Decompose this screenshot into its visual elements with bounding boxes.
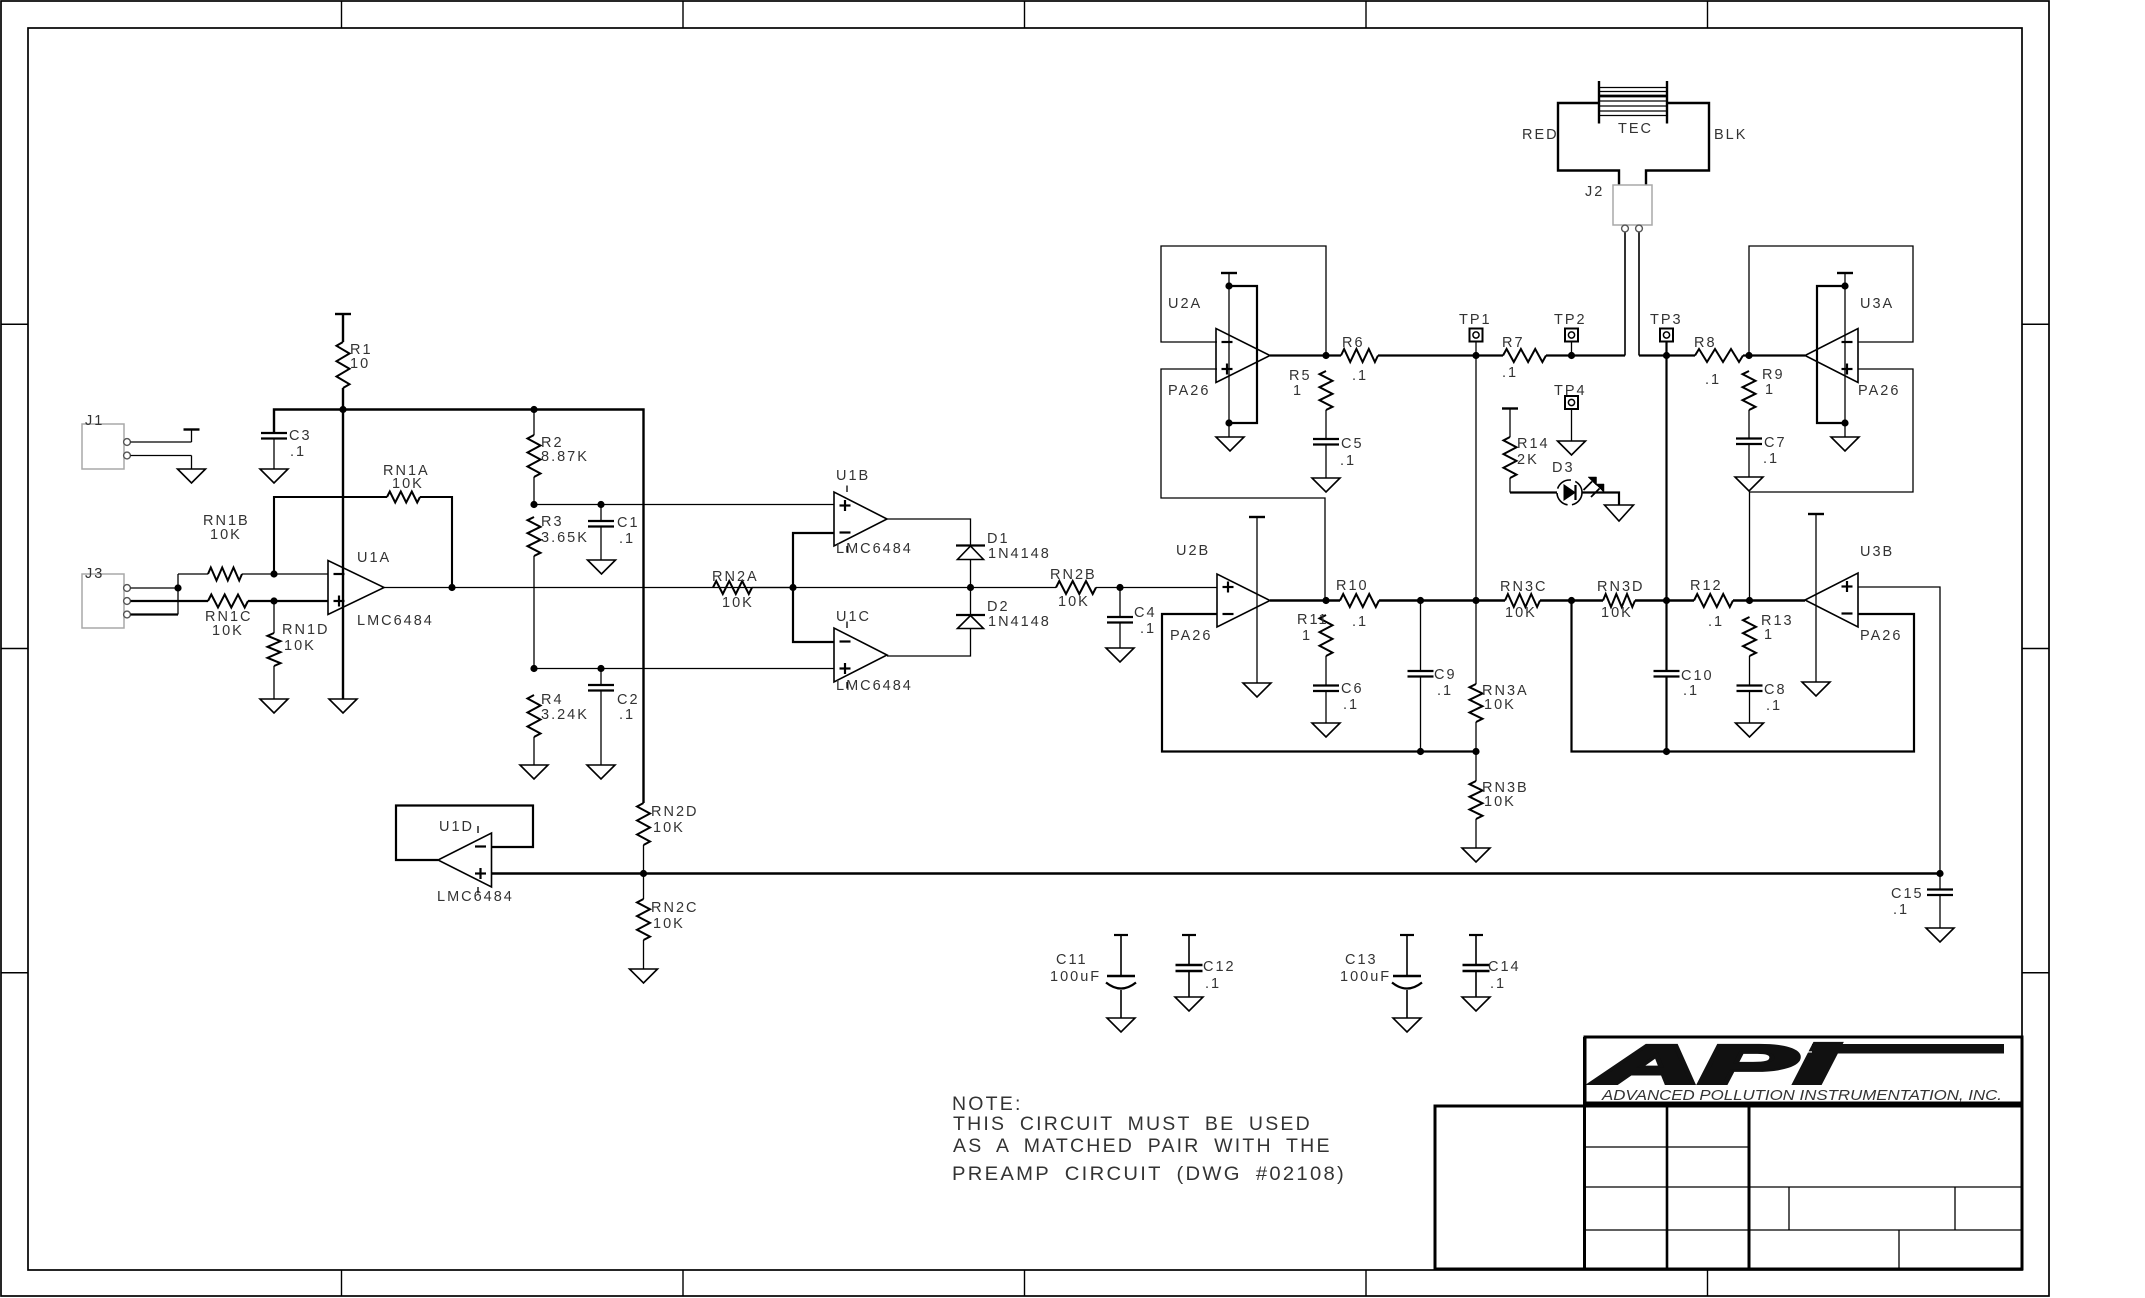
svg-text:.1: .1 <box>1340 453 1356 469</box>
svg-text:.1: .1 <box>1502 365 1518 381</box>
svg-text:ADVANCED POLLUTION INSTRUMENTA: ADVANCED POLLUTION INSTRUMENTATION, INC. <box>1601 1087 2002 1104</box>
svg-text:U1C: U1C <box>836 609 871 625</box>
svg-text:.1: .1 <box>1763 451 1779 467</box>
svg-text:R4: R4 <box>541 692 564 708</box>
wire U2A boost strap <box>1229 286 1257 423</box>
title block logo box <box>1585 1037 2022 1103</box>
wire J3 pin1 <box>131 587 179 589</box>
node R5 junction <box>1322 352 1329 359</box>
ground RN1D <box>260 699 288 713</box>
ground C4 <box>1106 648 1134 662</box>
svg-text:C11: C11 <box>1056 952 1088 968</box>
diode D1 1N4148 <box>956 531 1051 562</box>
svg-text:U3B: U3B <box>1860 544 1894 560</box>
note text <box>952 1093 1346 1185</box>
svg-text:D3: D3 <box>1552 460 1575 476</box>
wire J1 pin2 to ground <box>131 456 192 470</box>
capacitor C2 <box>588 669 640 766</box>
resistor RN3C <box>1500 579 1572 621</box>
svg-text:NOTE:: NOTE: <box>952 1093 1023 1115</box>
svg-text:100uF: 100uF <box>1340 969 1391 985</box>
svg-text:.1: .1 <box>1766 698 1782 714</box>
node RN3A top junction <box>1472 597 1479 604</box>
wire U3B plus to C15 node <box>1858 587 1940 874</box>
wire J3 pin2 to RN1C <box>131 600 209 602</box>
wire U2A output <box>1270 354 1341 356</box>
svg-text:C4: C4 <box>1134 605 1157 621</box>
node D1-D2 junction <box>967 584 974 591</box>
svg-text:R3: R3 <box>541 514 564 530</box>
node C9 top junction <box>1417 597 1424 604</box>
node C10 bottom junction <box>1663 748 1670 755</box>
ground U2B supply <box>1243 683 1271 697</box>
wire J2 pin2 lead <box>1638 232 1640 356</box>
wire to U1C minus <box>793 588 834 643</box>
svg-text:C1: C1 <box>617 515 640 531</box>
op-amp U2A PA26 <box>1168 296 1270 399</box>
terminal bar U3B supply <box>1808 513 1824 515</box>
test point TP3 <box>1650 312 1683 342</box>
svg-text:R10: R10 <box>1336 578 1369 594</box>
ground U3A supply <box>1831 437 1859 451</box>
node J3 pin1 junction <box>174 584 181 591</box>
svg-text:C15: C15 <box>1891 886 1924 902</box>
capacitor C6 <box>1313 681 1364 723</box>
svg-text:.1: .1 <box>619 531 635 547</box>
resistor RN1B <box>178 513 328 581</box>
svg-text:C13: C13 <box>1345 952 1378 968</box>
resistor R9 <box>1743 367 1785 439</box>
wire TP1 to RN3 node <box>1475 356 1477 601</box>
title block company name <box>1601 1087 2002 1104</box>
wire TP3 stem <box>1665 342 1667 601</box>
node R2-R3 junction <box>530 501 537 508</box>
wire U1B plus net <box>534 504 834 506</box>
wire TEC loop left RED <box>1522 103 1619 185</box>
svg-text:1: 1 <box>1765 382 1775 398</box>
wire J2 pin1 lead <box>1624 232 1626 356</box>
wire D3 to ground <box>1582 493 1619 506</box>
node C9 bottom junction <box>1417 748 1424 755</box>
ground C2 <box>587 765 615 779</box>
ground C5 <box>1312 478 1340 492</box>
node C15 junction <box>1936 870 1943 877</box>
svg-text:LMC6484: LMC6484 <box>437 889 514 905</box>
svg-text:PA26: PA26 <box>1860 628 1902 644</box>
svg-text:LMC6484: LMC6484 <box>357 613 434 629</box>
svg-text:1: 1 <box>1764 627 1774 643</box>
node RN2 junction <box>640 870 647 877</box>
svg-text:U1B: U1B <box>836 468 870 484</box>
node R9 junction <box>1745 352 1752 359</box>
wire U3A boost strap <box>1817 286 1845 423</box>
svg-text:8.87K: 8.87K <box>541 449 589 465</box>
capacitor C8 <box>1737 682 1787 723</box>
test point TP1 <box>1459 312 1492 356</box>
svg-text:AS A MATCHED PAIR WITH THE: AS A MATCHED PAIR WITH THE <box>953 1135 1332 1157</box>
ground RN2C <box>630 969 658 983</box>
capacitor C7 <box>1736 435 1787 477</box>
ground C8 <box>1736 723 1764 737</box>
svg-text:D1: D1 <box>987 531 1010 547</box>
title block table <box>1435 1037 2022 1269</box>
svg-text:10K: 10K <box>1484 697 1516 713</box>
svg-text:APi: APi <box>1592 1035 1838 1095</box>
node TP3-C10 junction <box>1663 597 1670 604</box>
svg-text:C2: C2 <box>617 692 640 708</box>
node U1A output feedback junction <box>448 584 455 591</box>
capacitor C5 <box>1313 436 1364 478</box>
wire U2B supply <box>1256 517 1258 683</box>
svg-text:J3: J3 <box>85 566 104 582</box>
node R4 top junction <box>530 665 537 672</box>
ground C1 <box>588 560 616 574</box>
capacitor C1 <box>588 505 640 561</box>
wire RN1A feedback loop <box>274 497 452 588</box>
svg-text:C6: C6 <box>1341 681 1364 697</box>
resistor RN1D <box>268 601 330 699</box>
svg-text:.1: .1 <box>1683 683 1699 699</box>
svg-text:.1: .1 <box>1490 976 1506 992</box>
resistor R13 <box>1743 613 1794 686</box>
test point TP2 <box>1554 312 1587 356</box>
wire to U2B plus <box>1120 587 1217 589</box>
terminal bar U2B supply <box>1249 516 1265 518</box>
ground U2A supply <box>1216 437 1244 451</box>
svg-text:C3: C3 <box>289 428 312 444</box>
svg-text:PREAMP CIRCUIT (DWG #02108): PREAMP CIRCUIT (DWG #02108) <box>952 1163 1346 1185</box>
resistor RN3B <box>1470 752 1529 849</box>
svg-text:C9: C9 <box>1434 667 1457 683</box>
ground C3 <box>260 469 288 483</box>
svg-text:RN2A: RN2A <box>712 569 759 585</box>
node U2A strap top <box>1225 282 1232 289</box>
connector J3 <box>82 566 130 628</box>
svg-text:1: 1 <box>1293 383 1303 399</box>
capacitor C4 <box>1107 588 1157 649</box>
resistor R11 <box>1297 612 1333 686</box>
wire J3 pin1/pin3 tie <box>177 574 179 615</box>
resistor RN2D <box>637 803 698 874</box>
resistor R2 <box>528 410 589 505</box>
svg-text:R11: R11 <box>1297 612 1329 628</box>
svg-text:10: 10 <box>350 356 370 372</box>
resistor RN3D <box>1572 579 1667 621</box>
wire R3 to R4 node <box>533 556 535 669</box>
svg-text:.1: .1 <box>1140 621 1156 637</box>
wire U1A output <box>384 587 644 589</box>
svg-text:TP3: TP3 <box>1650 312 1683 328</box>
wire V-line through U1A to ground <box>342 410 344 700</box>
svg-text:R8: R8 <box>1694 335 1717 351</box>
terminal bar R1 top <box>335 313 351 315</box>
node C1 junction <box>597 501 604 508</box>
svg-text:TP4: TP4 <box>1554 383 1587 399</box>
resistor RN2C <box>637 874 698 970</box>
svg-text:U1A: U1A <box>357 550 391 566</box>
svg-text:.1: .1 <box>619 707 635 723</box>
ground C7 <box>1735 477 1763 491</box>
svg-text:BLK: BLK <box>1714 127 1747 143</box>
ground C6 <box>1312 723 1340 737</box>
capacitor C11 100uF <box>1050 935 1136 1032</box>
capacitor C10 <box>1654 601 1714 752</box>
svg-text:10K: 10K <box>722 595 754 611</box>
svg-text:R9: R9 <box>1762 367 1785 383</box>
op-amp U1C <box>834 609 913 694</box>
wire U2A plus loop <box>1161 369 1325 601</box>
node RN3B top junction <box>1472 748 1479 755</box>
svg-text:R14: R14 <box>1517 436 1550 452</box>
op-amp U1D <box>437 819 514 905</box>
svg-text:C14: C14 <box>1488 959 1521 975</box>
capacitor C12 <box>1175 935 1236 1011</box>
svg-text:THIS CIRCUIT MUST BE USED: THIS CIRCUIT MUST BE USED <box>953 1113 1312 1135</box>
wire R12 to U3B <box>1750 599 1806 601</box>
resistor R4 <box>528 692 589 765</box>
svg-text:.1: .1 <box>1437 683 1453 699</box>
svg-text:U1D: U1D <box>439 819 474 835</box>
svg-text:C10: C10 <box>1681 668 1714 684</box>
svg-text:R12: R12 <box>1690 578 1723 594</box>
resistor R5 <box>1289 368 1333 439</box>
svg-text:10K: 10K <box>210 527 242 543</box>
svg-text:100uF: 100uF <box>1050 969 1101 985</box>
wire R14 to D3 <box>1510 491 1557 493</box>
svg-text:3.24K: 3.24K <box>541 707 589 723</box>
node R13 junction <box>1746 597 1753 604</box>
wire U2A supply <box>1228 273 1230 437</box>
svg-text:RN2B: RN2B <box>1050 567 1097 583</box>
svg-text:C8: C8 <box>1764 682 1787 698</box>
node C4 junction <box>1116 584 1123 591</box>
svg-text:RED: RED <box>1522 127 1559 143</box>
svg-text:10K: 10K <box>1601 605 1633 621</box>
terminal bar U2A supply <box>1221 272 1237 274</box>
node U3A strap top <box>1841 282 1848 289</box>
svg-text:C5: C5 <box>1341 436 1364 452</box>
svg-text:1: 1 <box>1302 628 1312 644</box>
wire mid feedback riser <box>1572 601 1915 752</box>
wire TEC loop right BLK <box>1646 103 1747 185</box>
capacitor C13 100uF <box>1340 935 1422 1032</box>
op-amp U2B PA26 <box>1170 543 1270 644</box>
node RN3C-RN3D junction <box>1568 597 1575 604</box>
svg-text:2K: 2K <box>1517 452 1539 468</box>
resistor R12 <box>1667 578 1750 630</box>
op-amp U1B <box>834 468 913 557</box>
svg-text:D2: D2 <box>987 599 1010 615</box>
svg-text:.1: .1 <box>1352 614 1368 630</box>
svg-text:U2A: U2A <box>1168 296 1202 312</box>
ground D3 <box>1605 505 1634 521</box>
node bus-R1 junction <box>339 406 346 413</box>
wire TP3 to R8 <box>1639 354 1695 356</box>
svg-text:C12: C12 <box>1203 959 1236 975</box>
resistor RN2A <box>644 569 793 611</box>
svg-text:10K: 10K <box>392 476 424 492</box>
svg-text:J1: J1 <box>85 413 104 429</box>
ground R4 <box>520 765 548 779</box>
op-amp U3B PA26 <box>1805 544 1902 644</box>
wire R8 to U3A <box>1749 354 1805 356</box>
op-amp U1A <box>328 550 434 629</box>
thermoelectric cooler TEC <box>1599 81 1667 137</box>
node U3A strap bottom <box>1841 419 1848 426</box>
ground J1 <box>178 469 206 483</box>
svg-text:10K: 10K <box>284 638 316 654</box>
wire U3B supply <box>1815 514 1817 682</box>
LED D3 <box>1552 460 1604 505</box>
resistor RN3A <box>1470 601 1529 752</box>
resistor RN1A <box>383 463 430 503</box>
diode D2 1N4148 <box>956 588 1051 631</box>
svg-text:10K: 10K <box>212 623 244 639</box>
svg-text:.1: .1 <box>1352 368 1368 384</box>
terminal bar R14 top <box>1502 407 1518 409</box>
svg-text:RN1D: RN1D <box>282 622 329 638</box>
svg-text:1N4148: 1N4148 <box>988 546 1051 562</box>
svg-text:.1: .1 <box>1708 614 1724 630</box>
svg-text:RN3D: RN3D <box>1597 579 1644 595</box>
node TP1 junction <box>1472 352 1479 359</box>
svg-text:10K: 10K <box>1505 605 1537 621</box>
svg-text:J2: J2 <box>1585 184 1604 200</box>
wire bus rail <box>274 410 644 804</box>
resistor RN1C <box>205 595 328 640</box>
svg-text:R5: R5 <box>1289 368 1312 384</box>
wire J3 pin3 <box>131 613 179 615</box>
wire D2 to U1C output <box>887 629 971 657</box>
node TP3 junction <box>1663 352 1670 359</box>
wire RN2B input <box>713 587 793 589</box>
svg-text:.1: .1 <box>1893 902 1909 918</box>
svg-text:.1: .1 <box>1705 372 1721 388</box>
svg-text:PA26: PA26 <box>1170 628 1212 644</box>
wire U2A minus feedback loop <box>1161 246 1326 356</box>
resistor R6 <box>1341 335 1476 384</box>
svg-text:.1: .1 <box>290 444 306 460</box>
wire D1 to node <box>970 560 972 588</box>
svg-text:U2B: U2B <box>1176 543 1210 559</box>
wire U1B output to D1 <box>887 519 971 546</box>
wire U2B output <box>1270 599 1340 601</box>
node U1A minus feedback junction <box>270 570 277 577</box>
node U1A plus RN1D junction <box>270 597 277 604</box>
wire R1 to bus <box>342 388 344 410</box>
resistor RN2B <box>793 567 1120 610</box>
node C2 junction <box>597 665 604 672</box>
svg-text:.1: .1 <box>1343 697 1359 713</box>
ground U1A supply <box>329 699 357 713</box>
capacitor C3 <box>261 428 312 460</box>
node TP2 junction <box>1568 352 1575 359</box>
wire to U1B minus <box>793 533 834 588</box>
ground TP4 <box>1558 441 1586 455</box>
svg-text:RN2D: RN2D <box>651 804 698 820</box>
capacitor C15 <box>1891 874 1953 929</box>
capacitor C9 <box>1408 601 1457 752</box>
connector J1 <box>82 413 130 469</box>
wire C3 to ground <box>273 439 275 470</box>
resistor R14 <box>1504 409 1550 493</box>
node U2A strap bottom <box>1225 419 1232 426</box>
svg-text:PA26: PA26 <box>1858 383 1900 399</box>
svg-text:TEC: TEC <box>1618 121 1653 137</box>
API logo <box>1592 1035 2004 1095</box>
svg-text:.1: .1 <box>1205 976 1221 992</box>
svg-text:R6: R6 <box>1342 335 1365 351</box>
test point TP4 <box>1554 383 1587 441</box>
wire U2B minus feedback <box>1162 614 1476 752</box>
resistor R8 <box>1694 335 1749 388</box>
node bus-R2 junction <box>530 406 537 413</box>
svg-text:RN2C: RN2C <box>651 900 698 916</box>
svg-text:3.65K: 3.65K <box>541 530 589 546</box>
svg-text:10K: 10K <box>1484 794 1516 810</box>
svg-text:10K: 10K <box>653 820 685 836</box>
terminal bar J1 <box>184 428 200 430</box>
ground C15 <box>1926 928 1954 942</box>
wire U3A supply <box>1844 273 1846 437</box>
svg-text:U3A: U3A <box>1860 296 1894 312</box>
wire U1D plus rail <box>492 872 1941 874</box>
svg-text:PA26: PA26 <box>1168 383 1210 399</box>
svg-text:1N4148: 1N4148 <box>988 614 1051 630</box>
wire U3A minus feedback loop <box>1749 246 1913 356</box>
wire U1D minus feedback loop <box>396 806 533 861</box>
ground RN3B <box>1462 848 1490 862</box>
svg-text:TP2: TP2 <box>1554 312 1587 328</box>
svg-text:TP1: TP1 <box>1459 312 1492 328</box>
ground U3B supply <box>1802 682 1830 696</box>
wire U3A plus loop <box>1750 369 1914 601</box>
wire R10 to RN3C <box>1421 599 1506 601</box>
svg-text:10K: 10K <box>653 916 685 932</box>
svg-text:C7: C7 <box>1764 435 1787 451</box>
node U1B/U1C minus junction <box>789 584 796 591</box>
capacitor C14 <box>1462 935 1521 1011</box>
resistor R7 <box>1476 335 1625 381</box>
wire U1C plus net <box>534 668 834 670</box>
resistor R3 <box>528 514 589 556</box>
svg-text:10K: 10K <box>1058 594 1090 610</box>
resistor R10 <box>1336 578 1421 630</box>
wire J1 pin1 to terminal <box>131 430 192 443</box>
connector J2 <box>1585 184 1652 232</box>
op-amp U3A PA26 <box>1805 296 1900 399</box>
resistor R1 <box>337 314 373 388</box>
terminal bar U3A supply <box>1837 272 1853 274</box>
svg-text:RN3C: RN3C <box>1500 579 1547 595</box>
svg-text:R7: R7 <box>1502 335 1525 351</box>
node R11 junction <box>1322 597 1329 604</box>
